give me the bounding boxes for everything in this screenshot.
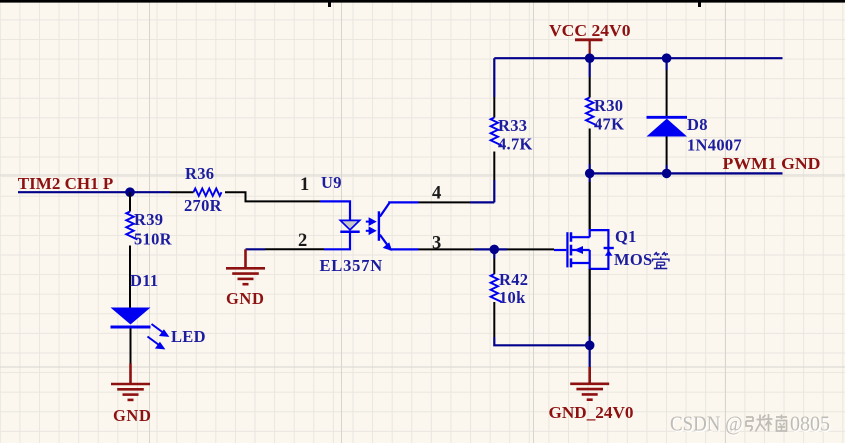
resistor R33 [491,118,502,146]
svg-text:4.7K: 4.7K [498,135,533,154]
svg-text:3: 3 [432,234,441,254]
transistor Q1 MOSFET body [567,229,608,270]
svg-text:Q1: Q1 [615,227,637,246]
wire D11 cathode to GND [130,329,132,364]
opto U9 LED cathode bar [340,231,359,234]
LED D11 emission arrow 1 [152,324,168,336]
svg-text:CSDN @: CSDN @ [670,412,743,436]
svg-text:R30: R30 [594,96,623,115]
wire R30 column [589,58,591,77]
svg-text:PWM1 GND: PWM1 GND [723,154,821,173]
svg-text:LED: LED [171,327,206,346]
svg-text:R36: R36 [185,164,214,183]
wire D8 column top [665,58,667,70]
opto U9 pin2 lead [324,233,350,249]
svg-text:EL357N: EL357N [320,256,383,275]
wire to GND_24V0 [589,345,591,367]
node junction drain/R30 [585,169,595,179]
ground GND_24V0 symbol [570,367,609,400]
svg-text:GND: GND [226,289,264,308]
wire pin2 to GND [265,248,324,250]
wire pin lead R36 left [170,191,194,193]
node junction source/R42 [585,341,595,351]
LED D11 triangle [111,308,151,325]
wire pin4 to R33 [419,201,471,203]
svg-text:510R: 510R [134,230,173,249]
wire R33 column [493,180,495,202]
node junction VCC/R30 [585,53,595,63]
diode D8 cathode bar [647,116,688,119]
wire gate lead [554,249,566,251]
wire R36 right to step [225,192,320,201]
svg-text:U9: U9 [321,173,342,192]
svg-text:D11: D11 [130,271,158,290]
svg-text:R33: R33 [498,116,527,135]
diode D8 triangle [647,119,688,137]
transistor Q1 body diode [604,247,614,249]
wire drain [589,173,591,182]
sheet border tick 1 [328,0,331,7]
svg-text:0805: 0805 [790,412,830,436]
svg-text:VCC 24V0: VCC 24V0 [549,21,631,40]
opto U9 light arrow 2 [366,228,375,233]
wire R42 column [493,249,495,258]
wire VCC top rail [494,57,782,59]
LED D11 cathode bar [111,326,151,329]
node junction at R39 top [125,187,135,197]
resistor R39 [126,212,137,240]
watermark 0805 [790,412,831,437]
opto U9 light arrow 1 [366,219,375,224]
svg-text:MOS: MOS [614,250,652,269]
transistor Q1 arrow [574,246,583,254]
svg-text:10k: 10k [499,288,526,307]
node junction VCC/D8 [662,53,672,63]
svg-text:R39: R39 [134,210,163,229]
sheet border top line [0,0,845,3]
LED D11 emission arrow 2 [148,337,164,349]
svg-text:1N4007: 1N4007 [687,136,742,155]
ground GND (opto pin2) [226,249,265,284]
svg-text:GND_24V0: GND_24V0 [549,403,634,422]
svg-text:GND: GND [113,406,151,425]
svg-text:D8: D8 [687,115,708,134]
wire TIM2_CH1_P horizontal [18,191,170,193]
ground GND (under D11) [111,364,150,400]
svg-text:TIM2 CH1 P: TIM2 CH1 P [18,174,114,193]
opto U9 emitter with arrow [380,235,419,250]
watermark Chinese zhang [746,415,766,432]
opto U9 pin1 lead [320,201,350,220]
node junction gate/R42 [490,245,500,255]
wire R39 top lead [129,192,131,211]
svg-text:47K: 47K [594,115,624,134]
wire D8 column bottom [666,137,668,166]
svg-text:1: 1 [300,175,309,195]
label Chinese 管 [653,252,670,269]
power VCC_24V0 symbol [575,40,603,58]
opto U9 LED triangle [340,220,359,229]
sheet border tick 2 [698,0,701,7]
resistor R30 [586,98,597,126]
opto U9 collector [380,202,419,216]
resistor R36 [194,189,222,196]
wire PWM1_GND rail [590,172,783,174]
watermark Chinese nan [766,414,788,432]
resistor R42 [491,274,502,302]
svg-text:R42: R42 [499,270,528,289]
wire source [589,269,591,336]
opto U9 phototransistor base bar [378,211,380,241]
wire R39 bottom to D11 [129,246,131,308]
node junction D8 bottom [662,169,672,179]
svg-text:2: 2 [298,231,307,251]
wire pin3 to gate node [419,248,475,250]
svg-text:4: 4 [432,184,441,204]
svg-text:270R: 270R [184,196,223,215]
watermark CSDN [670,412,744,437]
